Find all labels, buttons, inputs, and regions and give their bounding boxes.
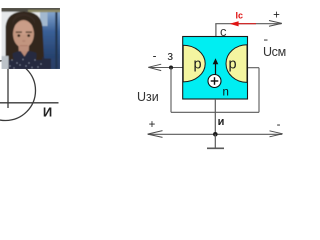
svg-text:з: з: [167, 49, 173, 63]
arrow (open, left) gate: [148, 64, 161, 70]
light patch bottom left: [1, 56, 9, 70]
nose shadow: [22, 40, 25, 42]
wire: drain lead vertical: [215, 24, 217, 37]
svg-text:p: p: [193, 57, 201, 73]
source wire: [0, 102, 59, 104]
hole symbol: circle with +: [208, 75, 221, 88]
neck: [19, 46, 30, 57]
wire: gate loop left vertical: [170, 68, 172, 113]
svg-text:Uзи: Uзи: [137, 90, 159, 104]
svg-text:-: -: [277, 119, 281, 131]
svg-text:n: n: [222, 86, 228, 98]
current arrow Ic (red): [238, 23, 256, 25]
wire: gate lead (left): [149, 67, 183, 69]
svg-text:и: и: [218, 116, 225, 128]
transistor structure body (n region): [183, 37, 248, 100]
svg-text:Uсм: Uсм: [263, 45, 286, 59]
arrow (open, left) bottom rail: [148, 131, 163, 138]
chest skin v: [21, 51, 29, 57]
stray mark: [264, 39, 268, 41]
clothing: [2, 51, 48, 69]
junction dot (source node): [213, 132, 218, 137]
svg-text:И: И: [43, 105, 52, 120]
p region (left): [183, 45, 205, 82]
wire: top rail horizontal: [215, 23, 281, 25]
svg-text:p: p: [228, 57, 236, 73]
wire: bottom rail: [148, 133, 282, 135]
wire: source lead vertical: [214, 99, 216, 134]
webcam photo overlay: [1, 8, 61, 70]
p region (right): [226, 45, 247, 83]
wire: right gate lead to structure: [248, 67, 260, 69]
arrow (open, right) bottom rail: [270, 131, 283, 137]
hair strands over shoulders: [6, 48, 14, 60]
dot pattern on clothing: [9, 59, 41, 69]
channel current arrow (up): [215, 63, 217, 76]
arrow (open, right) top rail: [269, 21, 282, 27]
transistor VT1 (left JFET symbol, partly hidden by webcam photo): [0, 40, 59, 121]
svg-text:-: -: [153, 51, 157, 63]
blue window right: [0, 0, 1, 1]
mouth: [20, 45, 29, 47]
svg-text:+: +: [149, 119, 156, 131]
eyes / brows: [16, 31, 22, 33]
hair: [6, 12, 45, 61]
wire: gate loop right vertical: [258, 68, 260, 113]
body circle: [0, 61, 36, 121]
dark top band: [1, 8, 61, 12]
ground: [214, 134, 216, 148]
gate lead (vertical): [7, 40, 9, 108]
fringe: [13, 14, 36, 27]
svg-text:+: +: [273, 10, 280, 22]
junction dot (gate node): [169, 66, 173, 70]
face: [13, 20, 34, 48]
wire: gate loop bottom horizontal: [171, 111, 259, 113]
svg-text:Iс: Iс: [236, 10, 244, 20]
